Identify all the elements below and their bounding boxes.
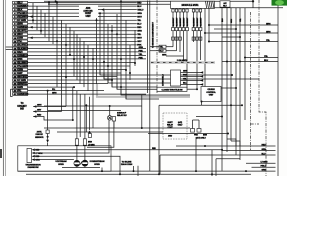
bulkhead long vertical	[149, 1, 151, 172]
ECM pin 14 GRN	[13, 37, 17, 40]
sensor bottom drops	[76, 166, 78, 167]
wire	[96, 18, 98, 84]
junction	[231, 74, 233, 76]
module #151 box	[171, 1, 215, 8]
wire	[76, 91, 78, 139]
ABS label white backing	[79, 5, 98, 18]
wire	[159, 155, 161, 174]
wire	[28, 90, 104, 92]
inline connector 2	[196, 37, 199, 40]
wire label	[137, 23, 140, 25]
wire	[216, 158, 240, 160]
junction	[56, 40, 58, 42]
wire	[28, 65, 130, 67]
ECM pin 33 WHT/RED	[13, 75, 17, 78]
svg-text:UPSHIFT: UPSHIFT	[17, 106, 27, 108]
svg-text:C-16 (4WD): C-16 (4WD)	[177, 59, 187, 62]
upshift wire GRY	[33, 110, 36, 113]
svg-text:BLU/WHT: BLU/WHT	[173, 17, 175, 27]
svg-text:WHT: WHT	[137, 17, 142, 19]
module pin	[196, 9, 198, 12]
wire	[28, 58, 146, 60]
ECM pin 28 ORN	[13, 68, 17, 71]
wire	[28, 40, 137, 42]
shift solenoid box A	[191, 129, 195, 133]
wire	[73, 31, 75, 76]
range switch wire GRN	[32, 158, 35, 161]
wire	[28, 44, 137, 46]
module side drops	[204, 8, 206, 86]
wire	[61, 20, 63, 111]
wire	[183, 31, 185, 62]
wire	[166, 50, 177, 52]
lower connector bracket	[11, 89, 13, 96]
module pin	[182, 9, 184, 12]
wire	[28, 26, 137, 28]
svg-text:BLK: BLK	[18, 10, 23, 12]
wire	[113, 121, 115, 128]
ECM pin 7 LT GRN	[13, 19, 17, 22]
ECM pin 4 YEL/BLU	[13, 12, 17, 15]
ECM pin 5 RED/WHT	[13, 15, 17, 18]
wire	[244, 8, 246, 120]
bus junction	[101, 170, 103, 172]
svg-text:BLU/WHT: BLU/WHT	[183, 17, 185, 27]
wire	[158, 105, 160, 174]
junction	[239, 61, 241, 63]
upshift junction	[72, 119, 74, 121]
wire	[65, 24, 67, 107]
svg-text:Y/BLU: Y/BLU	[137, 9, 144, 11]
svg-text:LT GRN: LT GRN	[18, 20, 26, 22]
wire	[85, 105, 87, 132]
junction	[111, 79, 113, 81]
svg-text:GRN: GRN	[266, 23, 271, 25]
svg-text:GRN: GRN	[18, 38, 23, 40]
wire	[28, 76, 117, 78]
top-right feeder	[215, 7, 284, 9]
ECM pin 31 GRY	[13, 72, 17, 75]
ECM pin 22 PNK	[13, 58, 17, 61]
bulkhead solid vertical	[147, 1, 149, 94]
bus junction	[245, 170, 247, 172]
wire	[150, 50, 159, 52]
inline connector 2	[172, 37, 175, 40]
wire	[172, 31, 174, 47]
module wire with label	[176, 12, 178, 28]
wire	[235, 8, 237, 155]
right column vertical labels	[221, 19, 223, 22]
wire label	[137, 2, 140, 4]
shift solenoid box B	[197, 129, 201, 133]
wire	[76, 34, 78, 80]
bus drops	[101, 168, 103, 172]
junction	[48, 2, 50, 4]
top junction dots	[252, 0, 254, 2]
svg-text:BLU: BLU	[183, 83, 188, 85]
svg-text:YEL/BLU: YEL/BLU	[18, 13, 28, 15]
sensor inline connector 1	[75, 139, 78, 145]
wire	[28, 2, 137, 4]
upstream HO2S sensor	[74, 160, 80, 166]
ECM pin 36 BRN/YEL	[13, 82, 17, 85]
wire	[99, 13, 101, 75]
junction	[116, 33, 118, 35]
wire label	[137, 5, 140, 7]
cruise control unit box	[201, 87, 221, 102]
inline connector	[175, 28, 178, 31]
ECM pin 41 GRN/ORN	[13, 93, 17, 96]
wire	[28, 16, 137, 18]
svg-text:GRN: GRN	[262, 149, 267, 151]
junction	[125, 69, 127, 71]
range switch label	[26, 164, 39, 166]
upstream HO2S label	[57, 161, 66, 163]
junction	[107, 65, 109, 67]
junction	[69, 54, 71, 56]
right exit wire GRN 1	[209, 24, 278, 26]
wire	[87, 45, 89, 91]
junction	[83, 56, 85, 58]
A/C relay box	[220, 1, 230, 7]
svg-text:BLU/WHT: BLU/WHT	[180, 17, 182, 27]
wire	[196, 116, 222, 118]
junction	[226, 61, 228, 63]
module wire with label	[186, 12, 188, 28]
knock sensor connector	[46, 130, 49, 134]
row25 label P/L	[52, 88, 55, 90]
module pin	[199, 9, 201, 12]
inline connector	[179, 28, 182, 31]
bundle verticals	[72, 88, 74, 120]
wire	[104, 73, 259, 79]
wire label	[137, 12, 140, 14]
svg-text:PNK: PNK	[18, 59, 23, 61]
red wire label	[152, 147, 155, 149]
knock arrow down	[46, 140, 49, 143]
top long wire 2	[48, 3, 171, 5]
svg-text:YEL/GRN: YEL/GRN	[18, 66, 28, 68]
wire	[28, 19, 137, 21]
sensor slash	[80, 162, 82, 165]
junction	[129, 72, 131, 74]
wire	[193, 31, 195, 42]
wire	[28, 83, 108, 85]
svg-text:HO2S: HO2S	[58, 164, 64, 166]
wire	[100, 69, 232, 75]
green logo	[272, 0, 288, 6]
knock dot	[47, 136, 49, 138]
ECM pin 38 GRN	[13, 86, 17, 89]
svg-text:4WD: 4WD	[168, 135, 173, 138]
inline connector 2	[179, 37, 182, 40]
inline connector	[196, 28, 199, 31]
wire	[196, 31, 198, 89]
wire label	[137, 26, 140, 28]
4wd label	[169, 135, 172, 137]
ECM pin 8 BRN	[13, 22, 17, 25]
svg-text:RED: RED	[18, 52, 23, 54]
row24 end dot	[73, 86, 75, 88]
highlighted gray trace mid	[97, 84, 190, 97]
wire	[48, 110, 121, 112]
svg-text:WHT: WHT	[18, 34, 24, 36]
upshift wire GRN	[33, 105, 36, 108]
bus junction	[133, 170, 135, 172]
svg-text:BLU: BLU	[18, 3, 23, 5]
wire	[28, 61, 135, 63]
svg-text:ONLY: ONLY	[178, 125, 184, 127]
wire label	[137, 19, 140, 21]
junction	[40, 30, 42, 32]
junction	[92, 58, 94, 60]
mid long wire y105	[159, 104, 242, 106]
svg-text:LT GRN: LT GRN	[88, 144, 95, 146]
wire	[28, 9, 137, 11]
highlighted gray trace bottom	[52, 147, 100, 151]
purge box	[112, 117, 115, 121]
svg-text:HO2S: HO2S	[94, 164, 100, 166]
purge label	[117, 112, 124, 114]
bottom bus 2	[26, 173, 251, 175]
range switch enclosure box	[18, 146, 111, 172]
svg-text:ORN: ORN	[18, 69, 23, 71]
sensor connector labels	[88, 141, 91, 143]
wire	[79, 38, 81, 84]
svg-text:BLU/WHT: BLU/WHT	[18, 62, 29, 64]
svg-text:MODULE #151: MODULE #151	[181, 3, 199, 7]
wire	[137, 166, 139, 176]
right exit wire YEL mid	[245, 57, 278, 59]
junction	[96, 19, 98, 21]
module wire with label	[200, 12, 202, 28]
throttle wire YEL	[181, 80, 204, 82]
cruise drop	[201, 102, 203, 106]
svg-text:RED: RED	[137, 27, 142, 29]
wire	[92, 48, 94, 128]
ECM pin 26 YEL/GRN	[13, 65, 17, 68]
page left border line 1	[2, 0, 4, 176]
cabin dash-dot boundary	[259, 0, 266, 176]
ECM pin 16 YEL	[13, 40, 17, 43]
svg-text:LT GRN: LT GRN	[35, 153, 43, 155]
mid color labels	[139, 46, 142, 48]
ECM pin 1 BLU	[13, 1, 17, 4]
wire	[141, 95, 143, 128]
svg-text:BLU: BLU	[160, 51, 165, 53]
ECM pin 18 BLK/WHT	[13, 47, 17, 50]
module pin	[186, 9, 188, 12]
bus junction	[211, 173, 213, 175]
svg-text:TO ENGINE COMPARTMENT: TO ENGINE COMPARTMENT	[152, 21, 155, 48]
left edge scan mark	[0, 149, 2, 158]
wire label	[137, 16, 140, 18]
module wire with label	[196, 12, 198, 28]
wire	[69, 27, 71, 55]
module pin	[172, 9, 174, 12]
wire	[186, 31, 188, 88]
page right border	[277, 0, 279, 176]
right exit wire YEL	[209, 41, 278, 43]
bundle arrow component	[88, 130, 91, 133]
junction	[103, 61, 105, 63]
svg-text:BLU/WHT: BLU/WHT	[187, 17, 189, 27]
svg-text:PNK: PNK	[183, 75, 188, 77]
junction	[120, 86, 122, 88]
range switch wire RED	[32, 149, 35, 152]
svg-text:BLU/YEL: BLU/YEL	[18, 31, 28, 33]
svg-text:GRN/WHT: GRN/WHT	[18, 6, 29, 8]
svg-text:DOWNSTREAM: DOWNSTREAM	[90, 160, 105, 163]
wire	[116, 14, 118, 89]
svg-text:GRN: GRN	[52, 92, 57, 94]
right exit wire LT GRN bot	[246, 162, 276, 164]
junction	[99, 12, 101, 14]
svg-text:UNIT: UNIT	[85, 16, 91, 18]
strip label	[176, 59, 187, 61]
right exit wire BLU mid	[222, 61, 278, 63]
wire	[28, 12, 137, 14]
junction	[111, 30, 113, 32]
bottom-right wires	[176, 145, 240, 147]
shift relay labels	[168, 122, 173, 124]
mid wire y106 left	[44, 105, 142, 107]
throttle wire PNK	[181, 76, 204, 78]
wire	[47, 134, 49, 140]
svg-text:GRN/RED: GRN/RED	[18, 27, 28, 29]
wire	[239, 8, 241, 160]
ECM pin 40 P/L	[13, 89, 17, 92]
svg-text:GRN/ORN: GRN/ORN	[18, 94, 29, 96]
closed throttle label box	[157, 87, 187, 91]
svg-text:(ABS 2E): (ABS 2E)	[84, 10, 93, 13]
inline connector 2	[192, 37, 195, 40]
wire	[125, 20, 127, 99]
wire	[84, 94, 86, 139]
svg-text:BLU: BLU	[137, 24, 142, 26]
wire	[40, 10, 42, 34]
bus junction	[195, 170, 197, 172]
row26 label GRN	[52, 92, 55, 94]
svg-text:BRN/YEL: BRN/YEL	[18, 83, 28, 85]
svg-text:BLU/WHT: BLU/WHT	[200, 17, 202, 27]
wire	[28, 23, 137, 25]
module pin	[175, 9, 177, 12]
svg-text:IND: IND	[20, 109, 24, 111]
range switch connector	[27, 148, 31, 162]
right exit wire GRN 2	[205, 32, 278, 34]
right exit wire BLU bot	[236, 154, 276, 156]
sensor inline connector 2	[83, 139, 86, 145]
ECM pin 35 LT GRN	[13, 79, 17, 82]
bottom right elbows	[227, 139, 236, 146]
wire	[222, 150, 236, 152]
wire	[126, 93, 159, 99]
ECM pin 9 GRN/RED	[13, 26, 17, 29]
wire	[121, 89, 190, 95]
ECM pin 21 GRN/BLK	[13, 54, 17, 57]
mid arrow	[101, 8, 104, 11]
svg-text:LT GRN: LT GRN	[261, 162, 269, 164]
AT-only dashed box	[163, 113, 187, 139]
bottom bus 1	[18, 170, 276, 172]
right bridge wire 1	[214, 28, 236, 30]
right bridge wire 2	[222, 36, 240, 38]
svg-text:ABS: ABS	[86, 7, 91, 10]
svg-text:GRN: GRN	[137, 13, 142, 15]
wire	[47, 143, 49, 146]
bus junction	[119, 173, 121, 175]
downstream HO2S sensor	[82, 160, 88, 166]
junction	[120, 58, 122, 60]
svg-text:GRN: GRN	[18, 87, 23, 89]
knock sensor label	[37, 131, 43, 133]
wire	[129, 45, 131, 80]
wire label	[137, 40, 140, 42]
junction	[65, 76, 67, 78]
wire	[108, 77, 171, 83]
bus junction	[158, 173, 160, 175]
wire	[187, 88, 197, 90]
svg-text:PNK: PNK	[139, 50, 144, 52]
module pin	[179, 9, 181, 12]
svg-text:BLK/WHT: BLK/WHT	[18, 48, 29, 50]
wire	[28, 33, 137, 35]
wire	[52, 17, 54, 44]
wire	[216, 87, 236, 89]
ECM pin 13 WHT	[13, 33, 17, 36]
svg-text:BRN: BRN	[88, 141, 93, 143]
top long wire 1	[44, 0, 253, 2]
module wire with label	[193, 12, 195, 28]
wire	[44, 13, 46, 37]
wire	[28, 47, 146, 49]
throttle wire GRN	[181, 72, 204, 74]
bulkhead dash-dot	[156, 0, 158, 93]
svg-text:GRN: GRN	[262, 169, 267, 171]
svg-text:GRY: GRY	[137, 41, 142, 43]
svg-text:YEL: YEL	[18, 41, 23, 43]
ABS control unit label	[86, 7, 90, 9]
svg-text:GRY: GRY	[18, 73, 23, 75]
svg-text:(A/T) ONLY: (A/T) ONLY	[196, 137, 206, 140]
solenoid labels	[195, 134, 198, 136]
svg-text:KNOCK: KNOCK	[36, 134, 44, 136]
top corner stub	[252, 1, 254, 8]
wire label	[137, 44, 140, 46]
range switch wire LT GRN	[32, 152, 35, 155]
inline connector	[199, 28, 202, 31]
svg-text:GRN: GRN	[266, 31, 271, 33]
svg-text:SENSOR: SENSOR	[35, 137, 44, 139]
wire	[160, 154, 236, 156]
wire	[28, 30, 137, 32]
svg-text:DIAG CONN: DIAG CONN	[121, 163, 133, 166]
knock feed vertical	[47, 91, 49, 130]
wire	[28, 37, 137, 39]
wire	[112, 81, 157, 87]
wire	[28, 79, 112, 81]
wire	[107, 24, 109, 83]
svg-text:CLOSED THROTTLE SW: CLOSED THROTTLE SW	[162, 89, 183, 91]
wire	[166, 55, 184, 57]
wire	[230, 8, 232, 141]
svg-text:PNK: PNK	[139, 57, 144, 59]
svg-text:BLU: BLU	[137, 6, 142, 8]
sensor bottom link	[62, 167, 100, 169]
svg-text:BLU/WHT: BLU/WHT	[193, 17, 195, 27]
junction	[235, 87, 237, 89]
